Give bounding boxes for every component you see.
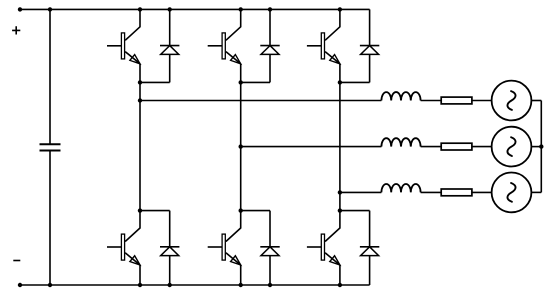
label: + (positive DC input) (12, 26, 20, 34)
wire: phase C output line (340, 191, 382, 193)
inductor L1 (phase A) (381, 92, 420, 100)
wire: phase C leg vertical (339, 82, 341, 210)
transistor Q4 (phase B low-side IGBT) (208, 211, 241, 285)
wire: Q1 emitter to D1 anode link (140, 81, 170, 83)
transistor Q2 (phase A low-side IGBT) (107, 211, 140, 285)
node: neutral bus junction (539, 144, 543, 148)
node: DC-link bottom junction (48, 283, 52, 287)
wire: V1 to neutral bus (531, 100, 541, 102)
transistor Q1 (phase A high-side IGBT) (107, 9, 140, 82)
resistor R1 (phase A) (441, 97, 472, 104)
wire: Q4 collector to D4 cathode link (241, 210, 270, 212)
diode D5 (phase C high-side freewheel) (360, 9, 379, 82)
node: D1 cathode junction on + rail (168, 7, 172, 11)
transistor Q6 (phase C low-side IGBT) (307, 211, 340, 285)
wire: phase B output line (241, 146, 382, 148)
wire: Q6 collector to D6 cathode link (340, 210, 370, 212)
wire: phase A output line (140, 100, 381, 102)
AC source V1 (phase A grid) (492, 81, 532, 121)
diode D4 (phase B low-side freewheel) (260, 211, 279, 285)
wire: phase A leg vertical (139, 82, 141, 210)
transistor Q5 (phase C high-side IGBT) (307, 9, 340, 82)
diode D1 (phase A high-side freewheel) (160, 9, 179, 82)
wire: phase B leg vertical (240, 82, 242, 210)
wire: top DC bus (+ rail) (20, 8, 370, 10)
inductor L3 (phase C) (381, 184, 420, 192)
wire: Q2 collector to D2 cathode link (140, 210, 170, 212)
wire: bottom DC bus (- rail) (20, 284, 370, 286)
inductor L2 (phase B) (381, 138, 420, 146)
node: D3 cathode junction on + rail (268, 7, 272, 11)
node: Q2 emitter junction on - rail (138, 283, 142, 287)
wire: left DC-link branch (49, 9, 51, 285)
transistor Q3 (phase B high-side IGBT) (208, 9, 241, 82)
diode D6 (phase C low-side freewheel) (360, 211, 379, 285)
node: phase A midpoint junction (138, 80, 142, 84)
capacitor C1 (DC link) (40, 144, 61, 150)
wire: R2 to V2 (472, 146, 492, 148)
node: Q1 collector junction on + rail (138, 7, 142, 11)
AC source V2 (phase B grid) (492, 127, 532, 167)
wire: right neutral bus (540, 101, 542, 193)
node: phase B midpoint junction (239, 80, 243, 84)
node: Q4 collector junction (239, 208, 243, 212)
wire: Q5 emitter to D5 anode link (340, 81, 370, 83)
node: DC+ input terminal (18, 7, 22, 11)
wire: L2 to R2 (421, 146, 442, 148)
resistor R2 (phase B) (441, 143, 472, 150)
node: phase B output tap (239, 144, 243, 148)
node: phase A output tap (138, 98, 142, 102)
node: DC-link top junction (48, 7, 52, 11)
node: phase C midpoint junction (338, 80, 342, 84)
wire: Q3 emitter to D3 anode link (241, 81, 270, 83)
AC source V3 (phase C grid) (492, 173, 532, 213)
wire: L1 to R1 (421, 100, 442, 102)
node: Q4 emitter junction on - rail (239, 283, 243, 287)
diode D2 (phase A low-side freewheel) (160, 211, 179, 285)
wire: V2 to neutral bus (531, 146, 541, 148)
node: DC- input terminal (18, 283, 22, 287)
resistor R3 (phase C) (441, 189, 472, 196)
wire: R1 to V1 (472, 100, 492, 102)
node: Q5 collector junction on + rail (338, 7, 342, 11)
node: phase C output tap (338, 190, 342, 194)
node: D2 anode junction on - rail (168, 283, 172, 287)
node: Q6 emitter junction on - rail (338, 283, 342, 287)
wire: L3 to R3 (421, 191, 442, 193)
diode D3 (phase B high-side freewheel) (260, 9, 279, 82)
wire: R3 to V3 (472, 191, 492, 193)
node: Q6 collector junction (338, 208, 342, 212)
node: D4 anode junction on - rail (268, 283, 272, 287)
label: − (negative DC input) (13, 260, 20, 262)
wire: V3 to neutral bus (531, 191, 541, 193)
node: Q2 collector junction (138, 208, 142, 212)
node: Q3 collector junction on + rail (239, 7, 243, 11)
